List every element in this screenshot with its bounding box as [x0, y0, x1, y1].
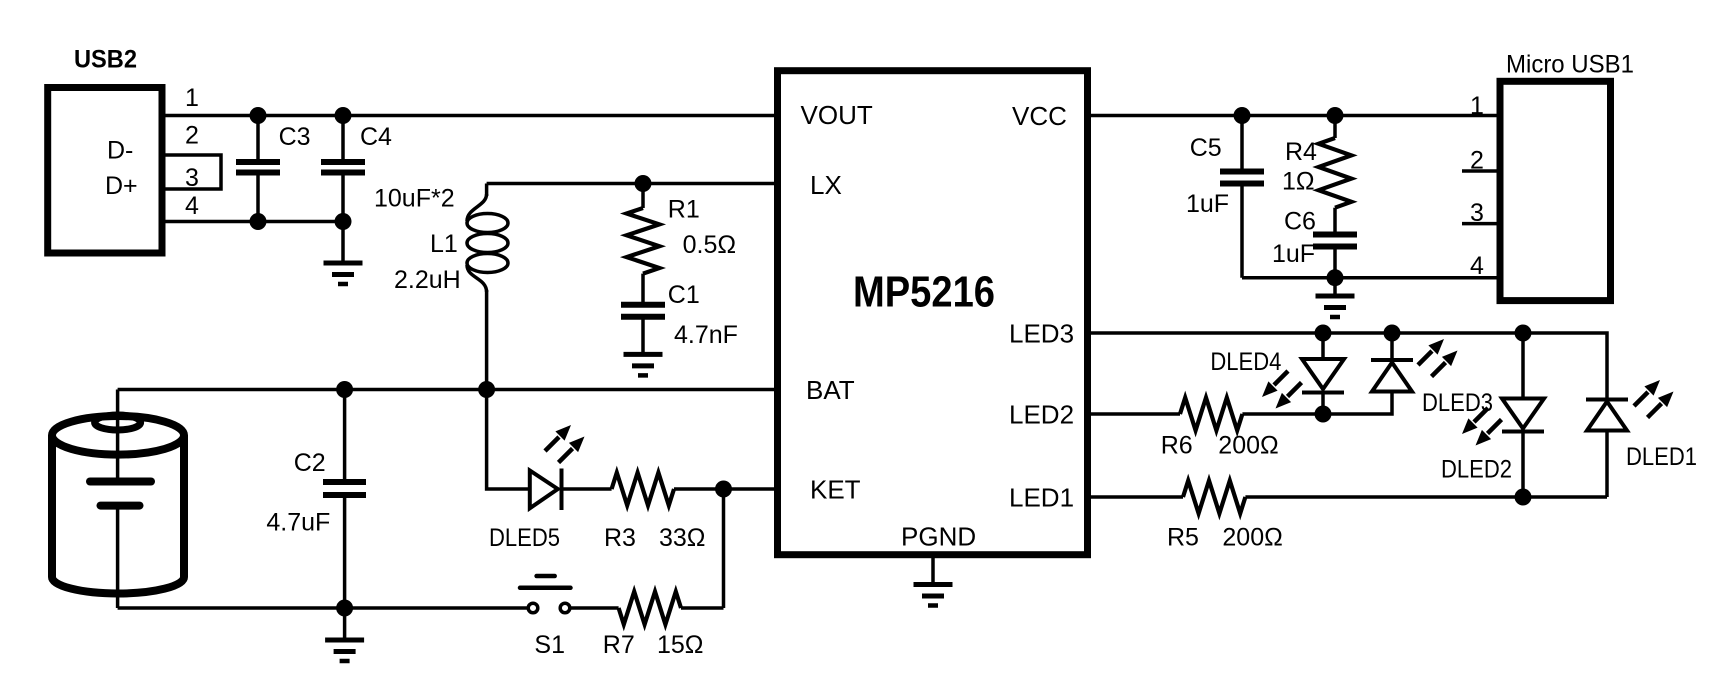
- svg-text:LX: LX: [810, 170, 842, 200]
- svg-text:C4: C4: [360, 123, 392, 151]
- node dot DLED4 bottom: [1315, 406, 1332, 423]
- svg-text:200Ω: 200Ω: [1222, 523, 1282, 551]
- DLED2 emission arrows: [1462, 408, 1502, 446]
- capacitor C2 4.7uF: [266, 390, 366, 609]
- svg-text:10uF*2: 10uF*2: [374, 185, 455, 213]
- node dot C3 top: [250, 107, 267, 124]
- svg-text:1: 1: [185, 84, 199, 112]
- node dot C2 top on BAT: [336, 381, 353, 398]
- node dot R4 top: [1327, 107, 1344, 124]
- DLED5 emission arrows: [545, 425, 585, 463]
- svg-text:LED3: LED3: [1009, 319, 1074, 349]
- svg-text:DLED5: DLED5: [489, 524, 560, 552]
- svg-text:4: 4: [185, 192, 199, 220]
- svg-text:15Ω: 15Ω: [657, 631, 704, 659]
- svg-text:2: 2: [185, 122, 199, 150]
- ground below C6: [1316, 278, 1355, 317]
- svg-text:4.7nF: 4.7nF: [674, 321, 738, 349]
- inductor L1 2.2uH: [394, 184, 508, 390]
- svg-text:R1: R1: [668, 196, 700, 224]
- resistor R1 0.5 ohm: [627, 184, 736, 305]
- USB2 connector J2: [48, 46, 162, 254]
- wire DLED1 anode riser: [1605, 431, 1609, 498]
- wire battery bottom to switch S1: [118, 606, 527, 610]
- Micro USB1 connector: [1470, 50, 1634, 300]
- svg-text:4.7uF: 4.7uF: [266, 508, 330, 536]
- svg-text:DLED2: DLED2: [1441, 456, 1512, 484]
- svg-text:LED2: LED2: [1009, 400, 1074, 430]
- node dot C3 bottom: [250, 213, 267, 230]
- wire LED2 net: IC to R6: [1088, 412, 1181, 416]
- wire LED2 node to DLED3 anode: [1323, 392, 1392, 415]
- svg-text:1: 1: [1470, 92, 1484, 120]
- wire C5/C6 bottom row to Micro USB1 pin4: [1242, 276, 1500, 280]
- ground below C2: [325, 608, 364, 661]
- LED DLED3: [1371, 333, 1493, 417]
- capacitor C4: [321, 116, 455, 222]
- wire LED1 net: IC to R5: [1088, 495, 1184, 499]
- svg-text:C5: C5: [1190, 134, 1222, 162]
- node dot L1 bottom on BAT: [478, 381, 495, 398]
- svg-text:L1: L1: [430, 230, 458, 258]
- capacitor C3: [236, 116, 311, 222]
- svg-text:DLED4: DLED4: [1210, 348, 1281, 376]
- wire LED3 net: [1088, 333, 1608, 400]
- node dot C6 bottom: [1327, 269, 1344, 286]
- node dot C5 top: [1234, 107, 1251, 124]
- node dot C2 bottom: [336, 600, 353, 617]
- LED DLED4: [1210, 333, 1344, 414]
- svg-text:VOUT: VOUT: [801, 100, 873, 130]
- svg-text:S1: S1: [534, 631, 565, 659]
- resistor R4 1 ohm: [1282, 116, 1351, 235]
- svg-text:1Ω: 1Ω: [1282, 168, 1315, 196]
- svg-text:D+: D+: [105, 172, 138, 200]
- svg-text:200Ω: 200Ω: [1218, 432, 1278, 460]
- node dot DLED4 top: [1315, 325, 1332, 342]
- svg-text:C6: C6: [1284, 208, 1316, 236]
- resistor R6 200 ohm: [1161, 398, 1323, 460]
- svg-text:1uF: 1uF: [1272, 240, 1315, 268]
- svg-text:R5: R5: [1167, 523, 1199, 551]
- svg-text:33Ω: 33Ω: [659, 524, 706, 552]
- wire DLED5 branch from BAT: [487, 390, 530, 490]
- node dot KET junction: [715, 481, 732, 498]
- resistor R3 33 ohm: [604, 473, 778, 552]
- svg-text:4: 4: [1470, 252, 1484, 280]
- node dot C4 top: [335, 107, 352, 124]
- LED DLED1: [1586, 400, 1697, 472]
- capacitor C1 4.7nF: [621, 281, 738, 355]
- wire KET junction down to R7: [722, 489, 726, 608]
- svg-text:C1: C1: [668, 281, 700, 309]
- node dot C4 bottom: [335, 213, 352, 230]
- DLED4 emission arrows: [1262, 371, 1302, 409]
- wire Micro USB1 pin2 stub: [1462, 169, 1500, 173]
- wire S1 to R7: [571, 606, 619, 610]
- svg-text:LED1: LED1: [1009, 483, 1074, 513]
- node dot DLED2 bottom: [1515, 489, 1532, 506]
- svg-text:DLED1: DLED1: [1626, 443, 1697, 471]
- node dot R1 top on LX: [635, 175, 652, 192]
- ground below C1: [624, 354, 663, 375]
- capacitor C6 1uF: [1272, 208, 1357, 278]
- svg-text:C2: C2: [294, 449, 326, 477]
- wire Micro USB1 pin3 stub: [1462, 222, 1500, 226]
- svg-text:R6: R6: [1161, 432, 1193, 460]
- DLED1 emission arrows: [1634, 380, 1674, 418]
- node dot DLED3 top: [1384, 325, 1401, 342]
- resistor R7 15 ohm: [603, 592, 724, 659]
- wire VOUT net: USB2 pin1 to IC VOUT: [162, 114, 778, 118]
- LED DLED2: [1441, 333, 1544, 497]
- battery B1: [52, 390, 184, 609]
- wire USB2 pin2-pin3 short loop: [162, 155, 221, 189]
- capacitor C5 1uF: [1186, 116, 1264, 278]
- wire VCC net: IC to Micro USB1 pin1: [1088, 114, 1501, 118]
- svg-text:1uF: 1uF: [1186, 190, 1229, 218]
- DLED3 emission arrows: [1418, 339, 1458, 377]
- svg-text:BAT: BAT: [806, 375, 855, 405]
- wire BAT net: [118, 388, 778, 392]
- wire LX net: [487, 182, 778, 186]
- svg-text:KET: KET: [810, 475, 861, 505]
- svg-text:Micro USB1: Micro USB1: [1506, 50, 1634, 78]
- svg-text:MP5216: MP5216: [853, 268, 995, 317]
- svg-text:R7: R7: [603, 631, 635, 659]
- svg-text:R4: R4: [1285, 138, 1317, 166]
- IC U1 MP5216: [778, 71, 1088, 555]
- ground below PGND: [914, 555, 953, 606]
- switch S1: [520, 576, 571, 659]
- LED DLED5: [489, 469, 612, 553]
- svg-text:VCC: VCC: [1012, 101, 1067, 131]
- wire USB2 pin4 to ground net: [162, 220, 343, 224]
- resistor R5 200 ohm: [1167, 481, 1607, 552]
- svg-text:USB2: USB2: [74, 46, 137, 74]
- node dot DLED2 top: [1515, 325, 1532, 342]
- svg-text:D-: D-: [107, 137, 133, 165]
- svg-text:R3: R3: [604, 524, 636, 552]
- svg-text:PGND: PGND: [901, 522, 976, 552]
- ground below C4: [324, 222, 363, 285]
- svg-text:C3: C3: [279, 123, 311, 151]
- svg-text:2.2uH: 2.2uH: [394, 266, 461, 294]
- svg-text:0.5Ω: 0.5Ω: [683, 231, 736, 259]
